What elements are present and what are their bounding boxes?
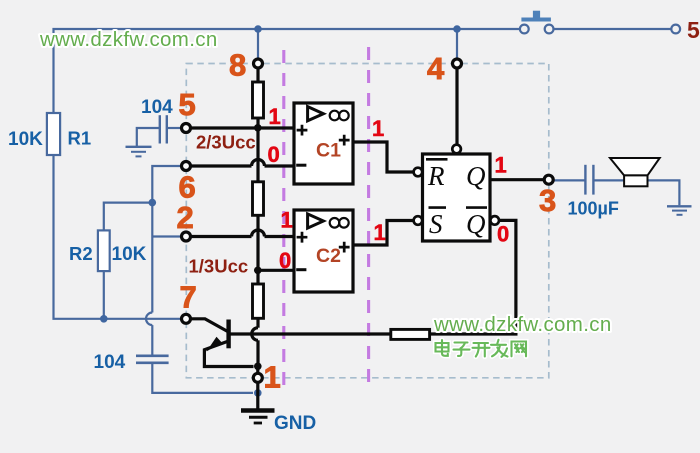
svg-text:1: 1 <box>264 360 281 395</box>
svg-text:100µF: 100µF <box>568 199 619 219</box>
svg-text:C2: C2 <box>316 245 341 267</box>
svg-text:5: 5 <box>687 17 700 43</box>
svg-text:R1: R1 <box>68 128 92 149</box>
svg-text:Q: Q <box>466 209 486 239</box>
svg-text:1: 1 <box>372 116 384 141</box>
svg-text:R: R <box>427 161 445 191</box>
svg-text:1/3Ucc: 1/3Ucc <box>189 256 249 277</box>
svg-text:2/3Ucc: 2/3Ucc <box>196 132 256 153</box>
svg-text:GND: GND <box>274 413 316 434</box>
svg-text:0: 0 <box>497 222 509 247</box>
svg-text:7: 7 <box>180 280 197 315</box>
svg-text:Q: Q <box>466 161 486 191</box>
svg-text:0: 0 <box>279 248 291 273</box>
svg-text:1: 1 <box>269 104 281 129</box>
svg-text:10K: 10K <box>112 244 147 265</box>
svg-text:1: 1 <box>495 153 507 178</box>
svg-text:0: 0 <box>268 142 280 167</box>
svg-text:C1: C1 <box>316 140 341 162</box>
svg-text:104: 104 <box>141 97 173 118</box>
svg-text:www.dzkfw.com.cn: www.dzkfw.com.cn <box>433 313 612 336</box>
svg-text:1: 1 <box>374 220 386 245</box>
svg-text:2: 2 <box>177 200 194 235</box>
svg-text:4: 4 <box>427 51 445 86</box>
svg-text:5: 5 <box>179 87 196 122</box>
svg-text:8: 8 <box>229 48 246 83</box>
svg-text:www.dzkfw.com.cn: www.dzkfw.com.cn <box>39 28 218 51</box>
svg-text:104: 104 <box>94 352 126 373</box>
svg-text:R2: R2 <box>69 243 93 264</box>
svg-text:10K: 10K <box>8 129 43 150</box>
svg-text:1: 1 <box>281 208 293 233</box>
svg-text:S: S <box>429 209 443 239</box>
svg-text:3: 3 <box>539 183 556 218</box>
